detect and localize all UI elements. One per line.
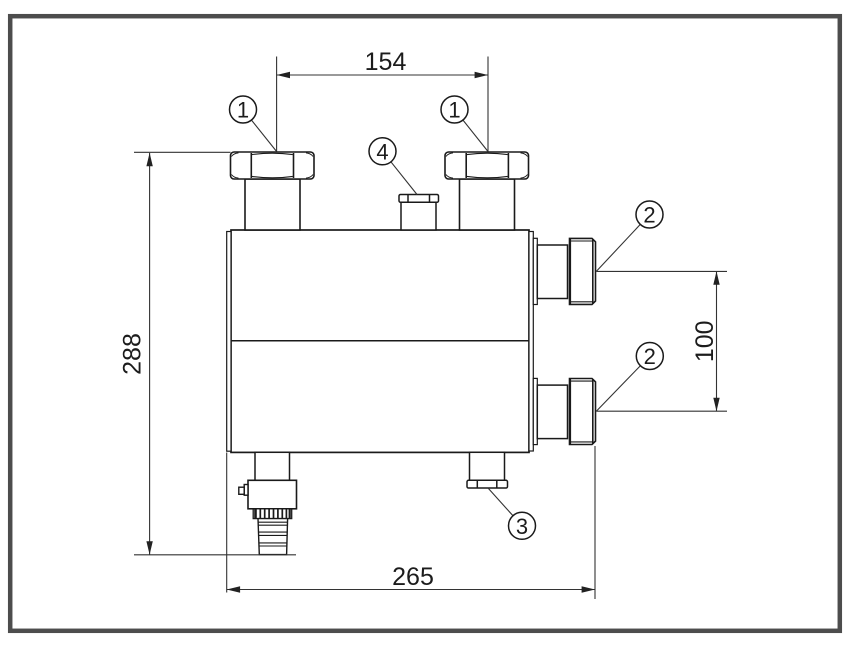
svg-text:1: 1 <box>237 98 249 123</box>
body mid seam line <box>227 340 534 342</box>
dim 100 arrow top <box>713 271 719 284</box>
dim 100 dimension line <box>716 271 718 411</box>
fitting U1 top-left neck <box>245 179 300 230</box>
dim 265 arrow left <box>227 586 240 592</box>
svg-text:4: 4 <box>376 139 388 164</box>
dim 100 extension line top <box>596 270 727 272</box>
dim 288 arrow bottom <box>146 541 152 554</box>
side fitting S2 lower flange <box>533 378 537 444</box>
callout leader 1 left <box>251 120 276 152</box>
svg-text:1: 1 <box>448 98 460 123</box>
dim 154 arrow left <box>277 72 290 78</box>
dim 288 extension line top <box>134 151 231 153</box>
dim 288 extension line bottom <box>134 554 296 556</box>
dim 265 extension line right <box>594 446 596 599</box>
callout leader 3 <box>488 488 513 516</box>
callout leader 4 <box>391 162 417 195</box>
dim 154 dimension line <box>277 74 488 76</box>
side fitting S2 lower nut <box>570 379 596 445</box>
fitting U2 top-right neck <box>460 179 515 230</box>
dim 288 dimension line <box>149 153 151 555</box>
svg-text:3: 3 <box>516 514 528 539</box>
drain valve neck <box>255 452 290 480</box>
svg-text:2: 2 <box>644 344 656 369</box>
callout circle 2 upper <box>636 201 663 228</box>
dim 100 extension line bottom <box>596 410 727 412</box>
vent fitting V4 neck <box>401 202 436 230</box>
svg-text:288: 288 <box>119 333 147 375</box>
callout circle 3 <box>509 512 536 539</box>
fitting U2 top-right hex nut <box>445 152 529 179</box>
dim 265 extension line left <box>226 453 228 593</box>
callout leader 1 right <box>463 120 488 152</box>
dim 100 arrow bottom <box>713 398 719 411</box>
callout circle 1 left <box>230 96 257 123</box>
dim 265 dimension line <box>227 589 595 591</box>
dim 265 arrow right <box>582 586 595 592</box>
callout circle 2 lower <box>636 343 663 370</box>
fitting U1 top-left hex nut <box>231 152 315 179</box>
bottom fitting B3 cap <box>467 480 508 488</box>
drain valve side nub <box>239 485 248 496</box>
drain valve hose barb <box>258 519 288 555</box>
svg-text:2: 2 <box>643 203 655 228</box>
body left end band <box>227 232 231 452</box>
side fitting S1 upper flange <box>533 238 537 304</box>
body main outline <box>231 230 529 452</box>
svg-text:100: 100 <box>691 320 719 362</box>
body right end band <box>529 232 533 452</box>
callout circle 1 right <box>441 96 468 123</box>
dim 154 extension line right <box>487 57 489 152</box>
callout leader 2 upper <box>596 224 640 271</box>
dim 154 arrow right <box>475 72 488 78</box>
vent fitting V4 cap <box>399 195 439 203</box>
side fitting S1 upper nut <box>570 238 596 304</box>
callout leader 2 lower <box>596 366 640 412</box>
drain valve knurled ring <box>253 509 292 519</box>
svg-text:265: 265 <box>392 563 434 591</box>
bottom fitting B3 neck <box>470 452 505 480</box>
svg-text:154: 154 <box>365 48 407 76</box>
drain valve body <box>248 480 297 509</box>
side fitting S2 lower neck <box>537 385 567 439</box>
side fitting S1 upper neck <box>537 245 567 299</box>
dim 288 arrow top <box>146 153 152 166</box>
callout circle 4 <box>369 138 396 165</box>
dim 154 extension line left <box>276 57 278 152</box>
